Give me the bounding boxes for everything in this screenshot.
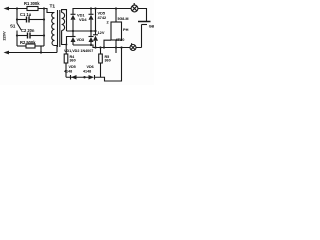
node bridge bottom right bbox=[90, 44, 92, 46]
wire bottom mains line bbox=[7, 52, 57, 54]
node mid line zener bbox=[94, 30, 96, 32]
wire top mains line bbox=[7, 8, 27, 10]
wire AC mid line bbox=[67, 30, 96, 32]
diode VD6 lower bbox=[89, 75, 95, 80]
lamp HL top bbox=[131, 5, 138, 12]
svg-text:220V: 220V bbox=[2, 31, 7, 40]
lamp HL top tick bbox=[134, 3, 135, 5]
node junction left rail top bbox=[16, 7, 18, 9]
wire C1 branch left bbox=[17, 19, 27, 21]
svg-text:2: 2 bbox=[107, 20, 110, 25]
mains input arrow bottom bbox=[4, 51, 10, 55]
node zener bottom bbox=[94, 46, 96, 48]
node rail diode right bbox=[90, 7, 92, 9]
wire rail drop to mains bottom bbox=[41, 46, 44, 53]
svg-text:VD4: VD4 bbox=[79, 17, 87, 22]
svg-text:VD1,VD2 1N4007: VD1,VD2 1N4007 bbox=[64, 49, 93, 53]
svg-text:12V: 12V bbox=[98, 30, 105, 35]
svg-text:4T10: 4T10 bbox=[116, 37, 125, 42]
node mid line diode left bbox=[72, 30, 74, 32]
wire VD5 to VD6 bbox=[66, 76, 89, 78]
node box bottom pin join bbox=[115, 46, 117, 48]
svg-text:5G8-M: 5G8-M bbox=[118, 17, 129, 21]
diode VD3 bottom right bbox=[89, 36, 94, 38]
node diode mid junction bbox=[83, 76, 85, 78]
wire box left pin bbox=[104, 40, 111, 47]
diode VD5 lower bbox=[70, 75, 72, 80]
svg-text:VD6: VD6 bbox=[87, 65, 94, 69]
svg-text:S1: S1 bbox=[10, 24, 16, 29]
wire subcircuit bottom run bbox=[95, 48, 122, 82]
svg-text:GB: GB bbox=[149, 25, 154, 29]
wire R2 branch left bbox=[17, 45, 26, 47]
wire box bottom pin bbox=[115, 40, 117, 53]
transformer T1 core bbox=[57, 10, 59, 47]
diode VD4 top right bbox=[89, 13, 94, 15]
resistor R1 bbox=[27, 7, 38, 11]
node subcircuit right column top bbox=[120, 46, 122, 48]
svg-text:R1 300k: R1 300k bbox=[24, 1, 40, 6]
resistor R5 bbox=[100, 48, 102, 55]
wire R2 branch right bbox=[35, 45, 44, 47]
wire primary bottom lead bbox=[55, 46, 58, 53]
wire bridge top rail bbox=[73, 9, 131, 15]
wire secondary bottom lead bbox=[62, 31, 71, 45]
node C1 branch right bbox=[43, 18, 45, 20]
zener VD5 bbox=[93, 34, 98, 36]
wire R1 to primary corner bbox=[38, 9, 55, 13]
wire box top pin bbox=[115, 9, 117, 23]
wire left rail upper bbox=[16, 9, 18, 24]
diode VD1 top left bbox=[71, 13, 76, 15]
wire C1 branch right bbox=[29, 19, 44, 21]
svg-text:C1 1μ: C1 1μ bbox=[20, 12, 32, 17]
node mid line diode right bbox=[90, 30, 92, 32]
svg-text:VD5: VD5 bbox=[69, 65, 76, 69]
svg-text:4148: 4148 bbox=[64, 70, 72, 74]
node R4 top bbox=[65, 44, 67, 46]
switch S1 lever bbox=[17, 24, 21, 31]
node R5 top bbox=[99, 46, 101, 48]
svg-text:360: 360 bbox=[105, 58, 111, 62]
wire zener column bbox=[95, 9, 97, 35]
lamp bottom tick bbox=[131, 43, 132, 45]
wire C2 branch left bbox=[17, 35, 28, 37]
wire battery bottom bbox=[141, 25, 143, 48]
node rail zener column bbox=[94, 7, 96, 9]
wire secondary top lead overpass bbox=[62, 10, 67, 31]
resistor R4 bbox=[65, 45, 67, 55]
battery GB bbox=[138, 21, 151, 23]
node C1 branch left bbox=[16, 18, 18, 20]
node box left pin bottom bbox=[103, 46, 105, 48]
svg-text:4148: 4148 bbox=[83, 70, 91, 74]
transformer T1 secondary winding bbox=[62, 13, 65, 31]
transformer T1 primary winding bbox=[52, 13, 55, 46]
mains input arrow top bbox=[4, 7, 10, 11]
svg-text:T1: T1 bbox=[50, 4, 56, 10]
node rail box pin bbox=[115, 7, 117, 9]
svg-text:VD3: VD3 bbox=[77, 37, 85, 42]
capacitor C2 bbox=[27, 33, 29, 39]
lamp HL2 bottom bbox=[130, 45, 136, 51]
svg-text:C2 20n: C2 20n bbox=[21, 28, 35, 33]
node mains bottom junction bbox=[40, 51, 42, 53]
capacitor C1 bbox=[26, 17, 28, 23]
wire right rail x44 bbox=[43, 9, 45, 47]
IC box U1 bbox=[111, 22, 122, 40]
wire C2 branch right bbox=[30, 35, 44, 37]
node junction rail x44 bbox=[43, 7, 45, 9]
node C2 branch left bbox=[16, 34, 18, 36]
node C2 branch right bbox=[43, 34, 45, 36]
resistor R2 bbox=[26, 44, 35, 48]
svg-text:360: 360 bbox=[70, 58, 76, 62]
svg-text:PH: PH bbox=[123, 27, 129, 32]
wire bridge bottom bbox=[73, 45, 142, 48]
wire left rail lower bbox=[16, 31, 18, 47]
wire lamp to right corner bbox=[138, 9, 147, 22]
diode VD2 bottom left bbox=[71, 36, 76, 38]
